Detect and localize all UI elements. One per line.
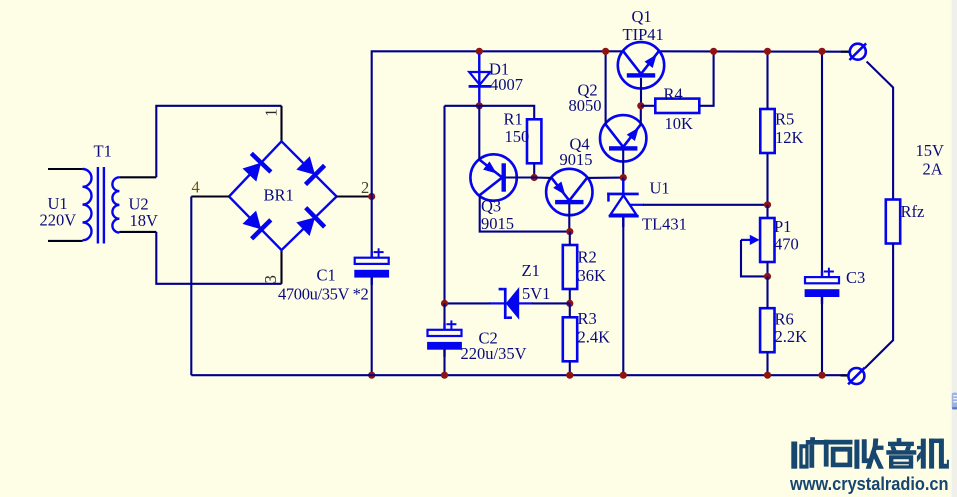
wire R4 to rail riser bbox=[699, 51, 713, 106]
potentiometer P1 bbox=[760, 218, 774, 262]
svg-text:www.crystalradio.cn: www.crystalradio.cn bbox=[789, 473, 948, 494]
junction C1 ground bbox=[368, 372, 375, 379]
terminal negative pin stub bbox=[841, 374, 849, 376]
svg-text:2.2K: 2.2K bbox=[775, 327, 808, 346]
wire Q2 emitter up to Q1 base node bbox=[640, 106, 642, 125]
svg-text:U1: U1 bbox=[650, 179, 670, 198]
transistor Q1 bbox=[618, 42, 664, 88]
wire bridge pin 2 to node 2 bbox=[337, 195, 372, 197]
wire C1 node2 down bbox=[371, 197, 373, 258]
wire Z1 node down to C2 bbox=[443, 303, 445, 329]
resistor R2 bbox=[563, 245, 577, 289]
wire R3 top bbox=[569, 303, 571, 317]
transistor Q3 bbox=[470, 154, 516, 200]
wire C2 to ground rail bbox=[443, 349, 445, 375]
diode D1 bbox=[469, 54, 492, 103]
scrollbar icon bbox=[952, 393, 957, 410]
transistor Q2 bbox=[600, 115, 646, 161]
svg-text:Q3: Q3 bbox=[481, 197, 501, 216]
T1 primary lead bottom bbox=[48, 240, 83, 242]
window edge strip bbox=[951, 0, 957, 497]
svg-text:4700u/35V *2: 4700u/35V *2 bbox=[278, 285, 368, 304]
wire R2 top bbox=[569, 232, 571, 245]
junction R5 rail bbox=[764, 48, 771, 55]
T1 primary lead top bbox=[48, 168, 83, 170]
svg-text:150: 150 bbox=[505, 127, 530, 146]
svg-text:TL431: TL431 bbox=[642, 214, 687, 233]
wire R2 bottom to Z1 node bbox=[569, 289, 571, 303]
svg-text:T1: T1 bbox=[94, 141, 112, 160]
svg-text:P1: P1 bbox=[774, 217, 791, 236]
zener diode Z1 bbox=[489, 287, 533, 320]
wire Q3 base to junction bbox=[506, 176, 535, 178]
resistor R6 bbox=[760, 308, 774, 352]
junction Q4 base/R2 bbox=[566, 228, 573, 235]
wire R3 bottom to ground bbox=[569, 361, 571, 375]
BR1 diode top-left bbox=[243, 153, 271, 181]
junction D1 bottom bbox=[476, 102, 483, 109]
wire top rail to R5 bbox=[766, 51, 768, 109]
watermark logo 矿石收音机 bbox=[791, 437, 949, 469]
junction U1 ground bbox=[620, 372, 627, 379]
wire Q1 base to R4 bbox=[641, 105, 656, 107]
wire Q2 base down to U1 node bbox=[622, 150, 624, 178]
svg-text:4007: 4007 bbox=[490, 75, 523, 94]
junction Q2 collector rail bbox=[602, 48, 609, 55]
wire riser node2 to top rail bbox=[372, 51, 624, 196]
capacitor C3 bbox=[805, 268, 840, 304]
wire R1 bottom to Q3 base node bbox=[533, 163, 535, 177]
BR1 diode bottom-left bbox=[243, 211, 271, 239]
wire C3 to ground rail bbox=[821, 297, 823, 376]
junction R5/P1/U1ref bbox=[764, 201, 771, 208]
svg-text:R2: R2 bbox=[578, 248, 597, 267]
junction R3 ground bbox=[566, 372, 573, 379]
shunt regulator U1 TL431 bbox=[607, 179, 644, 227]
svg-text:R4: R4 bbox=[664, 85, 683, 104]
junction P1/R6 bbox=[764, 273, 771, 280]
wire D1 node left bbox=[445, 106, 535, 120]
junction R1/Q3/Q4 bbox=[531, 174, 538, 181]
wire U1 ref to P1 node bbox=[643, 204, 768, 206]
svg-text:15V: 15V bbox=[916, 141, 945, 160]
wire junction to Q4 emitter bbox=[534, 176, 552, 178]
svg-text:9015: 9015 bbox=[560, 150, 593, 169]
junction C3 rail bbox=[818, 48, 825, 55]
P1 wiper wire to bottom bbox=[741, 240, 768, 277]
wire R5 bottom to P1 node bbox=[766, 153, 768, 205]
junction R6 ground bbox=[764, 372, 771, 379]
svg-text:36K: 36K bbox=[578, 266, 607, 285]
junction Q2 base/U1/Q4 bbox=[620, 174, 627, 181]
svg-text:1: 1 bbox=[261, 108, 280, 116]
svg-text:470: 470 bbox=[774, 235, 799, 254]
svg-text:220V: 220V bbox=[40, 210, 77, 229]
terminal output negative bbox=[848, 368, 865, 385]
terminal positive pin stub bbox=[841, 51, 850, 53]
junction D1 top bbox=[476, 48, 483, 55]
svg-text:R6: R6 bbox=[775, 310, 794, 329]
svg-text:R5: R5 bbox=[775, 110, 794, 129]
T1 secondary lead top bbox=[119, 176, 156, 178]
svg-text:2: 2 bbox=[361, 178, 369, 197]
wire Q2 base node to U1 cathode bbox=[622, 178, 624, 193]
capacitor C1 bbox=[354, 248, 389, 284]
wire top rail to Q2 collector bbox=[605, 51, 607, 124]
wire U1 anode to ground rail bbox=[622, 218, 624, 376]
svg-text:8050: 8050 bbox=[569, 96, 602, 115]
wire C1 to ground rail bbox=[371, 277, 373, 375]
BR1 diode bottom-right bbox=[296, 208, 324, 236]
svg-text:TIP41: TIP41 bbox=[623, 25, 664, 44]
svg-text:C3: C3 bbox=[846, 268, 865, 287]
P1 wiper arrow bbox=[741, 235, 760, 245]
transistor Q4 bbox=[546, 169, 592, 215]
transformer T1 bbox=[83, 167, 120, 244]
wire top rail right of Q1 bbox=[659, 50, 850, 53]
resistor R3 bbox=[563, 317, 577, 361]
junction Z1 left bbox=[441, 300, 448, 307]
svg-text:2.4K: 2.4K bbox=[578, 328, 611, 347]
svg-text:2A: 2A bbox=[923, 160, 943, 179]
svg-text:C1: C1 bbox=[317, 265, 336, 284]
T1 secondary lead bottom bbox=[119, 231, 156, 233]
wire P1 bottom bbox=[766, 262, 768, 276]
junction Q1 base/R4/Q2 bbox=[637, 102, 644, 109]
svg-text:BR1: BR1 bbox=[264, 186, 294, 205]
resistor R5 bbox=[760, 109, 774, 153]
BR1 diode top-right bbox=[296, 156, 324, 184]
wire R6 bottom to ground bbox=[766, 352, 768, 375]
svg-text:3: 3 bbox=[261, 275, 280, 283]
resistor R4 bbox=[655, 99, 699, 113]
svg-text:10K: 10K bbox=[665, 114, 694, 133]
wire P1 node to R6 bbox=[766, 276, 768, 308]
svg-text:R1: R1 bbox=[504, 110, 523, 129]
svg-text:R3: R3 bbox=[578, 309, 597, 328]
BR1 pin 1 bbox=[280, 106, 282, 142]
bridge rectifier BR1 bbox=[229, 141, 337, 250]
svg-text:12K: 12K bbox=[775, 128, 804, 147]
wire terminal to Rfz top bbox=[867, 62, 894, 200]
wire top rail to D1 bbox=[478, 51, 480, 72]
wire pin 4 to ground rail bbox=[190, 197, 192, 376]
svg-text:4: 4 bbox=[192, 178, 200, 197]
svg-text:5V1: 5V1 bbox=[522, 284, 550, 303]
resistor Rfz bbox=[886, 200, 900, 244]
ground rail bbox=[191, 374, 848, 376]
wire node to P1 top bbox=[766, 205, 768, 218]
junction R2/R3/Z1 bbox=[566, 300, 573, 307]
wire Z1 right to R2/R3 node bbox=[532, 302, 570, 304]
junction R4 riser rail bbox=[710, 48, 717, 55]
svg-text:Z1: Z1 bbox=[522, 261, 540, 280]
wire D1 node to Q3 emitter bbox=[478, 106, 480, 160]
svg-text:18V: 18V bbox=[130, 211, 159, 230]
wire Q4 collector to Q2 base node bbox=[587, 177, 624, 179]
wire Q3 collector down and right to R2 node bbox=[480, 195, 570, 232]
wire Q1 base down bbox=[640, 78, 642, 106]
resistor R1 bbox=[527, 119, 541, 163]
terminal output positive bbox=[850, 43, 867, 60]
node 2 junction bbox=[368, 193, 375, 200]
svg-text:Rfz: Rfz bbox=[901, 202, 925, 221]
BR1 pin 3 bbox=[280, 250, 282, 284]
wire secondary bottom to bridge pin 3 bbox=[156, 232, 281, 284]
wire left vertical to Z1 node bbox=[443, 106, 445, 304]
wire Rfz bottom to terminal bbox=[865, 244, 893, 369]
wire Z1 left to node bbox=[445, 302, 491, 304]
wire top rail to C3 bbox=[821, 51, 823, 277]
wire Q4 base down bbox=[568, 204, 570, 232]
junction C2 ground bbox=[441, 372, 448, 379]
svg-text:220u/35V: 220u/35V bbox=[461, 344, 527, 363]
svg-text:9015: 9015 bbox=[481, 214, 514, 233]
capacitor C2 bbox=[427, 320, 462, 356]
BR1 pin 4 bbox=[191, 195, 229, 197]
svg-text:Q1: Q1 bbox=[632, 7, 652, 26]
junction C3 ground bbox=[818, 372, 825, 379]
wire secondary top to bridge pin 1 bbox=[156, 106, 281, 178]
